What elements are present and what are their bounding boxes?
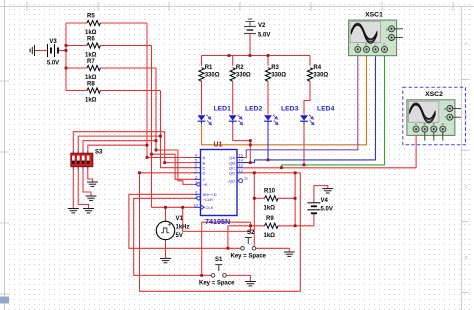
node orange-LED2 xyxy=(249,143,252,146)
resistor R1 xyxy=(199,68,204,82)
svg-text:XSC1: XSC1 xyxy=(365,12,383,19)
svg-text:14: 14 xyxy=(239,159,243,163)
node R10col-lead xyxy=(294,197,297,200)
wire R9 to CLK line xyxy=(183,207,251,231)
svg-text:R6: R6 xyxy=(87,37,95,43)
node rowB-S3p1 xyxy=(163,161,166,164)
resistor R6 xyxy=(87,43,101,48)
wire R6 column to CLK line xyxy=(151,46,153,208)
svg-text:LED2: LED2 xyxy=(245,106,263,113)
wire R8 right lead xyxy=(100,90,160,92)
wire step row to J xyxy=(152,154,197,179)
node green-LED4 xyxy=(303,164,306,167)
svg-text:3: 3 xyxy=(195,180,197,184)
svg-text:V3: V3 xyxy=(49,39,57,45)
svg-text:2: 2 xyxy=(195,175,197,179)
svg-text:CLK: CLK xyxy=(206,205,214,210)
node bus-V3 xyxy=(65,49,68,52)
wire R6 left lead xyxy=(66,45,87,47)
node S3p2-R8 xyxy=(159,135,162,138)
wire S1 link xyxy=(202,222,251,275)
svg-text:5.0V: 5.0V xyxy=(47,61,59,67)
svg-text:5.0V: 5.0V xyxy=(258,33,270,39)
node rowD-loop xyxy=(138,171,141,174)
svg-text:1kΩ: 1kΩ xyxy=(264,206,276,212)
LED1 xyxy=(198,115,212,125)
wire ~CLR to S1 xyxy=(134,198,212,275)
svg-text:V4: V4 xyxy=(321,198,329,204)
svg-text:1kΩ: 1kΩ xyxy=(264,233,276,239)
svg-text:330Ω: 330Ω xyxy=(313,72,328,78)
svg-text:330Ω: 330Ω xyxy=(271,72,286,78)
svg-text:~QD: ~QD xyxy=(227,178,235,183)
node QB-LED2 xyxy=(249,161,252,164)
svg-text:~K: ~K xyxy=(203,182,208,187)
svg-text:1kΩ: 1kΩ xyxy=(85,98,97,104)
node QC-green xyxy=(280,166,283,169)
wire S3 pin2 to R8 column xyxy=(78,136,160,153)
oscilloscope XSC2 xyxy=(407,100,455,136)
wire QD feedback loop to row D xyxy=(140,173,301,291)
wire S3 pin3 to R7 column xyxy=(83,141,156,154)
wire R10 column QD to R9 xyxy=(294,173,296,226)
svg-text:QD: QD xyxy=(229,171,235,176)
svg-text:1kΩ: 1kΩ xyxy=(85,53,97,59)
wire pullup bus vertical xyxy=(65,23,67,91)
node S3p3-R7 xyxy=(155,139,158,142)
wire V3 to pullup bus xyxy=(59,50,67,52)
wire S3 pin5 to ground xyxy=(72,167,74,209)
wire R5 left lead xyxy=(66,22,87,24)
clock source V1 xyxy=(156,221,174,239)
wire R2 to LED2 xyxy=(232,81,234,114)
svg-text:74195N: 74195N xyxy=(205,217,230,226)
DIP switch S3 xyxy=(71,151,93,169)
wire LED3 cathode to QB net (blue) xyxy=(267,124,269,160)
wire S3 pin8 to ground xyxy=(88,167,93,182)
svg-text:12: 12 xyxy=(239,169,243,173)
ground S2 xyxy=(284,252,295,256)
wire LED1 cathode to XSC1 channel B (orange) xyxy=(202,53,367,145)
svg-text:LED4: LED4 xyxy=(317,106,335,113)
wire QC to XSC2 channel A xyxy=(243,167,416,169)
wire row D xyxy=(140,172,197,174)
wire XSC2 terminal 1 down xyxy=(415,132,417,168)
wire S3 pin4 to R5 column xyxy=(88,145,147,153)
node R9-R10col xyxy=(294,224,297,227)
svg-text:15: 15 xyxy=(239,154,243,158)
svg-text:R3: R3 xyxy=(271,65,279,71)
node rail-R2 xyxy=(228,54,231,57)
wire QB to XSC1 channel C (blue) xyxy=(243,53,376,163)
wire S1 right to ground xyxy=(226,275,250,281)
svg-text:Key = Space: Key = Space xyxy=(231,254,267,260)
node QD-R10 xyxy=(253,197,256,200)
svg-text:R9: R9 xyxy=(266,216,274,222)
svg-text:LED3: LED3 xyxy=(281,106,299,113)
resistor R2 xyxy=(230,68,235,82)
ground S1 xyxy=(245,282,256,286)
node bus-R7 xyxy=(65,67,68,70)
node S1-feedback xyxy=(200,274,203,277)
ground S3-4 xyxy=(87,182,98,186)
wire SH/~LD to S2 xyxy=(129,194,241,248)
svg-text:~CLR: ~CLR xyxy=(203,197,213,202)
wire QD to feedback loop xyxy=(243,172,300,174)
svg-text:R10: R10 xyxy=(264,189,276,195)
node step-R6 xyxy=(150,153,153,156)
node rail-V2 xyxy=(249,54,252,57)
resistor R9 xyxy=(265,223,279,228)
svg-text:5.0V: 5.0V xyxy=(321,207,333,213)
svg-text:R7: R7 xyxy=(87,59,95,65)
wire R3 to LED3 xyxy=(267,81,269,114)
svg-text:4: 4 xyxy=(195,154,197,158)
svg-text:S1: S1 xyxy=(215,257,223,263)
wire step row to ~K xyxy=(156,150,195,184)
node QD-S2 xyxy=(253,171,256,174)
LED2 xyxy=(229,115,243,125)
wire CLK line xyxy=(152,206,195,208)
svg-text:1: 1 xyxy=(195,194,197,198)
svg-text:330Ω: 330Ω xyxy=(205,72,220,78)
switch S2 xyxy=(241,238,256,251)
wire S2 right to ground xyxy=(256,248,290,252)
wire R10 right lead xyxy=(278,197,295,199)
ground S3-2 xyxy=(83,209,94,213)
wire R5 right lead xyxy=(100,22,147,24)
node bus-R6 xyxy=(65,44,68,47)
svg-text:S3: S3 xyxy=(95,150,103,156)
wire R8 column to row C xyxy=(161,91,197,168)
wire QC to XSC1 channel D (green) xyxy=(282,53,385,168)
ground V1 xyxy=(160,258,171,262)
node R9-CLK branch xyxy=(249,224,252,227)
wire R1 top lead xyxy=(201,56,203,66)
svg-text:V1: V1 xyxy=(176,216,184,222)
svg-text:1kΩ: 1kΩ xyxy=(85,30,97,36)
wire R6 right lead xyxy=(100,45,151,47)
wire LED2 cathode to QB xyxy=(233,124,251,163)
svg-text:V2: V2 xyxy=(258,23,266,29)
IC U1 74195N xyxy=(194,150,248,216)
wire V2 to rail xyxy=(249,34,251,56)
wire S3 pin1 to row B xyxy=(73,132,164,163)
node S3p4-R5 xyxy=(146,144,149,147)
wire S3 pin6 to ground xyxy=(78,167,88,209)
wire V2 rail xyxy=(202,55,311,57)
svg-text:Key = Space: Key = Space xyxy=(199,281,235,287)
wire QA to XSC1 channel A (purple) xyxy=(246,53,357,158)
node CLK-R9 xyxy=(181,206,184,209)
resistor R7 xyxy=(87,65,101,70)
power source V2 with ground xyxy=(244,19,256,34)
wire R1 to LED1 xyxy=(201,81,203,114)
wire R9 right lead xyxy=(278,225,314,227)
resistor R4 xyxy=(307,68,312,82)
wire R8 left lead xyxy=(66,90,87,92)
resistor R10 xyxy=(265,196,279,201)
node rail-R3 xyxy=(267,54,270,57)
wire R3 top lead xyxy=(267,56,269,66)
ground S3-3 xyxy=(86,196,97,200)
wire gndV3 to V3 xyxy=(35,50,48,52)
wire V1 top xyxy=(165,207,167,221)
wire R4 top lead xyxy=(309,56,311,66)
svg-text:1kΩ: 1kΩ xyxy=(85,75,97,81)
wire R2 top lead xyxy=(232,56,234,66)
wire V4 top to ground xyxy=(314,186,328,203)
wire R7 right lead xyxy=(100,67,156,69)
svg-text:R4: R4 xyxy=(313,65,321,71)
scrollbar fragment bottom-left (decorative) xyxy=(0,297,9,304)
LED3 xyxy=(264,115,278,125)
ground V4 xyxy=(322,189,333,193)
wire LED4 cathode xyxy=(303,124,305,165)
node rowA-R5 xyxy=(146,156,149,159)
wire R7 left lead xyxy=(66,67,87,69)
wire R10 left lead to QD column xyxy=(254,197,264,199)
node step-R7 xyxy=(155,149,158,152)
svg-text:R1: R1 xyxy=(205,65,213,71)
node R9-S2 xyxy=(227,247,230,250)
svg-text:LED1: LED1 xyxy=(214,106,232,113)
wire QD column to S2 xyxy=(253,173,255,247)
svg-text:7: 7 xyxy=(195,169,197,173)
battery V4 xyxy=(307,203,320,214)
wire R9 drop to S2 line xyxy=(227,226,229,249)
wire row B xyxy=(165,162,196,164)
svg-text:U1: U1 xyxy=(214,142,223,149)
svg-text:13: 13 xyxy=(239,164,243,168)
svg-text:330Ω: 330Ω xyxy=(236,72,251,78)
wire QA stub to scope A xyxy=(243,157,246,159)
oscilloscope XSC1 xyxy=(349,20,397,56)
svg-text:B: B xyxy=(465,113,468,118)
wire V4 bottom lead xyxy=(313,214,315,226)
wire R9 left lead xyxy=(228,225,265,227)
LED4 xyxy=(300,115,314,125)
selection box around XSC2 xyxy=(403,87,466,145)
svg-text:R5: R5 xyxy=(87,14,95,20)
svg-text:1kHz: 1kHz xyxy=(176,225,190,231)
svg-text:R8: R8 xyxy=(87,82,95,88)
node CLK-V1 xyxy=(164,206,167,209)
svg-text:11: 11 xyxy=(244,177,248,181)
svg-text:R2: R2 xyxy=(236,65,244,71)
svg-text:10: 10 xyxy=(194,203,198,207)
wire S3 pin7 to ground xyxy=(83,167,91,196)
switch S1 xyxy=(211,265,226,278)
ground S3-1 xyxy=(68,209,79,213)
svg-text:5V: 5V xyxy=(176,233,183,239)
node LED2 corner xyxy=(249,139,252,142)
svg-text:D: D xyxy=(203,171,206,176)
svg-text:A: A xyxy=(465,41,468,46)
wire V1 bottom to ground xyxy=(165,240,167,259)
svg-text:5: 5 xyxy=(195,159,197,163)
battery V3 xyxy=(48,44,59,57)
wire R7 column to step row xyxy=(155,68,157,150)
svg-text:6: 6 xyxy=(195,164,197,168)
svg-text:S2: S2 xyxy=(247,230,255,236)
ground for V3 (rotated left) xyxy=(30,45,34,56)
resistor R8 xyxy=(87,88,101,93)
wire R5 column to row A xyxy=(147,23,196,158)
node blue-LED3 xyxy=(267,159,270,162)
svg-text:XSC2: XSC2 xyxy=(425,91,443,98)
resistor R3 xyxy=(265,68,270,82)
resistor R5 xyxy=(87,20,101,25)
wire R4 to LED4 xyxy=(304,81,310,114)
node QD-R10col xyxy=(294,171,297,174)
